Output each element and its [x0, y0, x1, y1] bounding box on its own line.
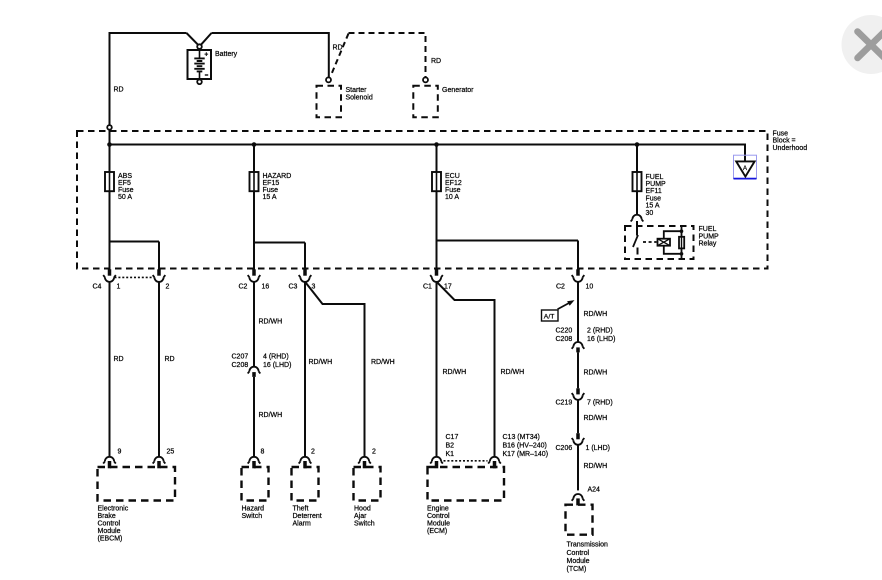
svg-text:B2: B2	[446, 443, 455, 450]
svg-text:Electronic: Electronic	[98, 505, 129, 512]
node: generator terminal circle	[423, 77, 428, 82]
svg-text:(TCM): (TCM)	[567, 566, 587, 573]
wire: into relay switch	[636, 221, 638, 236]
svg-text:Fuse: Fuse	[445, 187, 461, 194]
svg-text:C3: C3	[289, 284, 298, 291]
wire RD/WH to ECM left	[436, 282, 438, 457]
svg-text:Module: Module	[98, 528, 121, 535]
fuse block underhood box	[77, 131, 768, 269]
svg-text:Control: Control	[567, 550, 590, 557]
svg-text:30: 30	[646, 210, 654, 217]
svg-text:Brake: Brake	[98, 513, 116, 520]
EBCM pin 25	[153, 457, 166, 469]
svg-text:Fuse: Fuse	[773, 130, 789, 137]
svg-text:RD/WH: RD/WH	[443, 369, 467, 376]
svg-text:15 A: 15 A	[263, 194, 277, 201]
wire RD/WH middle	[577, 352, 579, 388]
svg-text:C206: C206	[556, 445, 573, 452]
svg-text:16 (LHD): 16 (LHD)	[263, 362, 291, 369]
svg-text:15 A: 15 A	[646, 203, 660, 210]
svg-text:Module: Module	[567, 558, 590, 565]
svg-text:Hood: Hood	[354, 505, 371, 512]
svg-text:Switch: Switch	[354, 521, 375, 528]
svg-text:Engine: Engine	[427, 505, 449, 512]
svg-text:Module: Module	[427, 521, 450, 528]
svg-text:C208: C208	[556, 336, 573, 343]
junction dot fuel pump tap	[635, 142, 640, 147]
svg-text:2 (RHD): 2 (RHD)	[587, 327, 613, 334]
svg-text:EF11: EF11	[646, 188, 662, 195]
svg-text:PUMP: PUMP	[646, 181, 667, 188]
terminal 30 cap	[631, 215, 644, 222]
ECM pin right	[488, 457, 501, 469]
svg-text:Control: Control	[427, 513, 450, 520]
fuse HAZARD EF15 wire	[253, 145, 255, 270]
fuse FUEL PUMP EF11	[633, 172, 642, 191]
svg-text:(EBCM): (EBCM)	[98, 536, 123, 543]
wire RD/WH to hazard switch pin 8	[253, 377, 255, 457]
svg-text:C207: C207	[232, 353, 249, 360]
svg-text:C2: C2	[556, 284, 565, 291]
connector C4 pin 2	[153, 269, 166, 282]
svg-text:C220: C220	[556, 327, 573, 334]
relay coil wiring + resistor branch	[664, 226, 682, 259]
svg-text:RD: RD	[333, 45, 343, 52]
wire: B+ bus to ground symbol	[110, 145, 746, 162]
wire RD/WH	[577, 400, 579, 433]
wire: hazard branch to C3 pin 3	[254, 243, 305, 270]
svg-text:C208: C208	[232, 362, 249, 369]
svg-text:Starter: Starter	[346, 87, 368, 94]
svg-text:Underhood: Underhood	[773, 145, 808, 152]
wire: battery V tap	[187, 33, 212, 45]
svg-text:2: 2	[166, 284, 170, 291]
svg-text:9: 9	[118, 449, 122, 456]
svg-text:HAZARD: HAZARD	[263, 173, 292, 180]
svg-text:RD/WH: RD/WH	[584, 369, 608, 376]
svg-text:C219: C219	[556, 400, 573, 407]
svg-text:Theft: Theft	[293, 505, 309, 512]
wire RD to EBCM pin 9	[109, 282, 111, 457]
fuse ABS EF5	[105, 172, 114, 191]
svg-text:ECU: ECU	[445, 173, 460, 180]
connector C4 pin1-pin2 dotted link	[115, 276, 154, 278]
svg-text:EF12: EF12	[445, 180, 462, 187]
node: battery positive terminal circle	[197, 44, 202, 49]
connector C1 pin 17	[430, 269, 443, 282]
hazard switch pin 8	[248, 457, 261, 468]
inline connector C219	[572, 388, 585, 400]
fuse FUEL PUMP EF11 wire	[636, 145, 638, 215]
svg-text:RD: RD	[431, 58, 441, 65]
svg-text:RD: RD	[114, 87, 124, 94]
svg-text:RD/WH: RD/WH	[501, 369, 525, 376]
svg-text:16 (LHD): 16 (LHD)	[587, 336, 615, 343]
fuse HAZARD EF15	[250, 172, 259, 191]
relay switch fixed contact	[637, 248, 639, 255]
svg-text:B16 (HV–240): B16 (HV–240)	[503, 443, 547, 450]
svg-text:RD/WH: RD/WH	[259, 412, 283, 419]
inline connector C220 C208	[572, 342, 585, 352]
node: feed terminal circle at fuse block border	[107, 125, 112, 130]
ground A symbol	[734, 155, 757, 178]
svg-text:K17 (MR–140): K17 (MR–140)	[503, 451, 549, 458]
wire: feed into bus	[109, 130, 111, 145]
wire: ABS branch to pin 2	[110, 242, 160, 270]
svg-text:A/T: A/T	[544, 314, 555, 321]
starter solenoid box	[317, 86, 342, 118]
svg-text:FUEL: FUEL	[646, 174, 664, 181]
close button	[842, 15, 882, 74]
svg-text:C17: C17	[446, 434, 459, 441]
wire: dashed diagonal to starter solenoid	[332, 34, 349, 74]
EBCM pin 9	[103, 457, 116, 468]
svg-text:C2: C2	[239, 284, 248, 291]
svg-text:Block =: Block =	[773, 138, 796, 145]
wire RD/WH to hood ajar switch	[305, 282, 365, 457]
wire RD/WH to theft deterrent alarm	[304, 282, 306, 457]
connector C2 pin 16	[248, 269, 261, 282]
svg-text:RD/WH: RD/WH	[584, 463, 608, 470]
svg-text:Fuse: Fuse	[646, 195, 662, 202]
wire: top run to starter solenoid	[212, 33, 329, 78]
svg-text:RD/WH: RD/WH	[259, 319, 283, 326]
svg-text:7 (RHD): 7 (RHD)	[587, 400, 613, 407]
ECM box	[428, 467, 505, 501]
svg-text:Control: Control	[98, 521, 121, 528]
svg-text:C1: C1	[423, 284, 432, 291]
svg-text:RD: RD	[114, 356, 124, 363]
svg-text:K1: K1	[446, 451, 455, 458]
resistor in relay	[679, 237, 684, 249]
svg-text:1 (LHD): 1 (LHD)	[586, 445, 611, 452]
svg-text:EF15: EF15	[263, 180, 280, 187]
generator box	[413, 86, 438, 118]
wire RD/WH hazard upper	[253, 282, 255, 367]
junction dot hazard tap	[252, 142, 257, 147]
svg-text:50 A: 50 A	[118, 194, 132, 201]
svg-text:Ajar: Ajar	[354, 513, 367, 520]
svg-text:RD/WH: RD/WH	[371, 359, 395, 366]
svg-text:Fuse: Fuse	[118, 187, 134, 194]
svg-text:4 (RHD): 4 (RHD)	[263, 353, 289, 360]
svg-text:FUEL: FUEL	[699, 226, 717, 233]
junction dot bus left	[107, 142, 112, 147]
A/T callout box	[542, 300, 575, 321]
svg-text:RD/WH: RD/WH	[584, 415, 608, 422]
wire: ECU branch to C2 pin 10	[437, 241, 579, 270]
hood ajar switch box	[354, 467, 381, 501]
fuse ABS EF5 wire	[109, 145, 111, 270]
fuel pump relay box	[625, 226, 694, 259]
node: battery negative terminal circle	[197, 80, 202, 85]
svg-text:Alarm: Alarm	[293, 521, 311, 528]
wire RD/WH to TCM	[577, 445, 579, 491]
theft deterrent alarm pin 2	[299, 457, 312, 469]
battery	[188, 50, 212, 79]
connector C4 pin 1	[103, 269, 116, 282]
inline connector C207 C208	[248, 367, 261, 377]
svg-text:C4: C4	[93, 284, 102, 291]
svg-text:Transmission: Transmission	[567, 542, 608, 549]
EBCM box	[98, 467, 176, 501]
svg-text:Generator: Generator	[442, 87, 474, 94]
TCM box	[566, 505, 593, 535]
wire: battery feed top-left (RD)	[110, 33, 187, 125]
svg-text:Battery: Battery	[215, 51, 238, 58]
ECM pins dotted link	[444, 460, 488, 462]
relay switch blade	[633, 235, 638, 247]
svg-text:PUMP: PUMP	[699, 233, 720, 240]
wire RD/WH trans line upper	[577, 282, 579, 342]
relay coil (crossed box)	[658, 239, 671, 246]
svg-text:Hazard: Hazard	[242, 505, 265, 512]
fuse ECU EF12	[432, 172, 441, 191]
svg-text:1: 1	[117, 284, 121, 291]
svg-text:25: 25	[167, 449, 175, 456]
svg-text:(ECM): (ECM)	[427, 528, 447, 535]
svg-text:Relay: Relay	[699, 241, 717, 248]
connector C3 pin 3	[299, 269, 312, 282]
svg-text:C13 (MT34): C13 (MT34)	[503, 434, 540, 441]
svg-text:RD/WH: RD/WH	[584, 311, 608, 318]
connector C2 pin 10	[572, 269, 585, 282]
hood ajar switch pin 2	[358, 457, 371, 469]
wire RD/WH to ECM right	[437, 282, 495, 457]
theft deterrent alarm box	[292, 467, 319, 501]
svg-text:A: A	[743, 166, 747, 172]
inline connector C206	[572, 433, 585, 445]
svg-text:2: 2	[311, 449, 315, 456]
svg-text:Switch: Switch	[242, 513, 263, 520]
ECM pin left	[430, 457, 443, 469]
hazard switch box	[242, 467, 269, 501]
svg-text:A24: A24	[588, 486, 601, 493]
svg-text:10: 10	[586, 284, 594, 291]
svg-text:10 A: 10 A	[445, 194, 459, 201]
svg-text:RD: RD	[165, 356, 175, 363]
wire RD to EBCM pin 25	[158, 282, 160, 457]
wire: dashed run to generator (RD)	[349, 33, 426, 78]
TCM pin A24	[572, 494, 585, 505]
svg-text:Solenoid: Solenoid	[346, 94, 373, 101]
relay control dashed link	[643, 241, 657, 243]
svg-text:ABS: ABS	[118, 173, 132, 180]
junction dots relay coil	[680, 229, 684, 233]
svg-text:8: 8	[261, 449, 265, 456]
svg-text:EF5: EF5	[118, 180, 131, 187]
fuse ECU EF12 wire	[436, 145, 438, 270]
node: starter solenoid terminal circle	[326, 77, 331, 82]
svg-text:16: 16	[262, 284, 270, 291]
junction dot ECU tap	[434, 142, 439, 147]
svg-text:Fuse: Fuse	[263, 187, 279, 194]
svg-text:RD/WH: RD/WH	[309, 359, 333, 366]
svg-text:Deterrent: Deterrent	[293, 513, 322, 520]
svg-text:2: 2	[372, 449, 376, 456]
